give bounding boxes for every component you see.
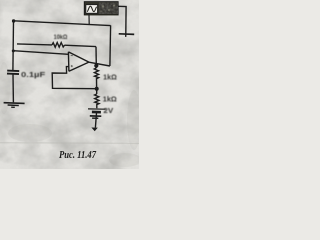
- svg-text:1kΩ: 1kΩ: [103, 75, 117, 82]
- svg-text:1kΩ: 1kΩ: [103, 96, 117, 103]
- svg-text:0.1µF: 0.1µF: [21, 72, 46, 79]
- svg-text:2V: 2V: [103, 108, 113, 115]
- svg-text:10kΩ: 10kΩ: [54, 34, 68, 41]
- svg-text:Рис. 11.47: Рис. 11.47: [59, 150, 97, 161]
